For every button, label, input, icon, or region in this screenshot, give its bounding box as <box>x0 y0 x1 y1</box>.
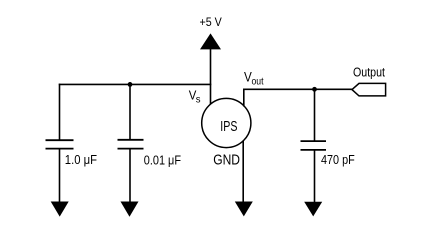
svg-text:Output: Output <box>353 65 385 79</box>
capacitor C3 470pF plates <box>301 141 327 150</box>
svg-text:IPS: IPS <box>220 119 237 135</box>
ground arrow under C2 <box>121 202 139 217</box>
svg-text:s: s <box>196 93 201 105</box>
svg-text:1.0 μF: 1.0 μF <box>65 153 98 167</box>
capacitor C2 bottom lead wire <box>129 149 131 203</box>
capacitor C1 bottom lead wire <box>59 149 61 203</box>
wire left horizontal bus Vs <box>59 83 212 85</box>
op-amp/sensor U1 IPS circle <box>202 98 251 147</box>
junction node dot C2/bus <box>128 82 133 87</box>
wire from +5V arrow down to IPS top <box>210 49 212 105</box>
Output connector flag <box>352 83 386 96</box>
ground arrow under C1 <box>51 202 69 217</box>
svg-text:out: out <box>252 76 264 88</box>
capacitor C3 top lead wire <box>314 89 316 141</box>
capacitor C1 1.0uF plates <box>46 140 74 148</box>
wire GND pin from IPS bottom <box>242 141 244 204</box>
junction node dot C3/Vout bus <box>312 87 317 92</box>
node Vout label <box>244 69 264 87</box>
wire Vout horizontal bus <box>243 88 353 90</box>
capacitor C2 top lead wire <box>129 84 131 139</box>
ground arrow under IPS GND <box>235 202 253 217</box>
ground arrow under C3 <box>304 202 322 217</box>
capacitor C2 0.01uF plates <box>118 140 144 149</box>
svg-text:+5 V: +5 V <box>200 15 222 29</box>
node Vs label <box>189 87 201 105</box>
+5 V supply arrow <box>200 33 221 49</box>
svg-text:470 pF: 470 pF <box>321 153 355 167</box>
svg-text:0.01 μF: 0.01 μF <box>144 154 182 168</box>
capacitor C1 top lead wire <box>59 84 61 140</box>
svg-text:GND: GND <box>213 152 240 169</box>
capacitor C3 bottom lead wire <box>314 150 316 203</box>
wire from IPS right up to Vout bus <box>243 89 245 107</box>
